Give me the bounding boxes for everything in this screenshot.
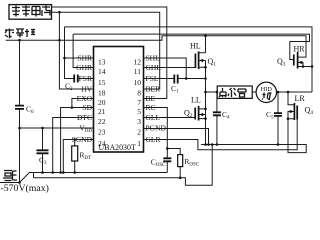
svg-text:2: 2 xyxy=(137,128,141,137)
wire: GLR to Q4 gate xyxy=(144,120,298,150)
wire: VDD rail to -570V vertical xyxy=(20,127,94,129)
wire: SHR top rail to right bridge node xyxy=(65,27,313,92)
svg-text:HV: HV xyxy=(81,85,92,94)
pin numbers left xyxy=(98,58,106,149)
capacitor C1 xyxy=(174,75,177,84)
wire: SHR pin stub xyxy=(65,57,94,59)
svg-text:24: 24 xyxy=(98,139,106,148)
wire: GHR pin stub xyxy=(73,34,93,67)
svg-text:3: 3 xyxy=(137,117,141,126)
high voltage label 高压 xyxy=(3,171,17,181)
capacitor C5 xyxy=(277,92,279,145)
quiet rail junction dots xyxy=(51,171,54,174)
svg-text:7: 7 xyxy=(137,98,141,107)
svg-text:BE: BE xyxy=(146,94,156,103)
node: ground rail / HV vertical xyxy=(58,39,61,42)
svg-text:GHR: GHR xyxy=(76,63,92,72)
svg-text:22: 22 xyxy=(98,117,106,126)
svg-text:11: 11 xyxy=(134,67,141,76)
control circuit box 控制电路 xyxy=(9,5,52,20)
svg-text:20: 20 xyxy=(98,98,106,107)
wire: system ground rail xyxy=(6,36,306,57)
node: control wire2 to ground tap xyxy=(58,11,61,14)
wire: C1 to bridge left node xyxy=(178,78,206,80)
wire: DTC down to quiet rail xyxy=(53,118,94,173)
capacitor C4 xyxy=(216,92,218,145)
svg-text:10: 10 xyxy=(134,78,142,87)
wire: GHL to Q1 gate xyxy=(144,67,196,69)
pin numbers right xyxy=(134,58,142,149)
wire: C2 right plate to FSR pin xyxy=(78,78,94,80)
capacitor C3 branch xyxy=(42,128,44,173)
node: igniter tap on bridge vertical xyxy=(204,91,207,94)
wire: igniter to lamp xyxy=(252,91,256,93)
svg-text:21: 21 xyxy=(98,107,106,116)
wire: SHR left vertical to C2 xyxy=(65,27,75,79)
system ground label 系统地 xyxy=(5,29,35,38)
capacitor C6 on -570V branch xyxy=(19,40,21,182)
svg-text:18: 18 xyxy=(98,89,106,98)
wire: control output 2 to BER pin xyxy=(52,12,160,89)
svg-text:SHR: SHR xyxy=(77,54,92,63)
wire: control output 1 to BE pin xyxy=(52,7,167,99)
svg-text:LL: LL xyxy=(191,96,201,105)
wire: EXO tied to SD xyxy=(72,99,94,108)
wire: SD down to quiet rail xyxy=(61,108,94,173)
wire: bridge bottom rail xyxy=(201,119,306,153)
node: ground rail / C6 branch xyxy=(18,39,21,42)
svg-text:8: 8 xyxy=(137,89,141,98)
wire: SGND down to quiet rail xyxy=(63,140,93,173)
svg-text:BER: BER xyxy=(146,85,161,94)
resistor RDT xyxy=(74,140,76,173)
capacitor Cosc xyxy=(163,158,171,161)
wire: PGND down to bridge bottom xyxy=(144,129,209,145)
pin labels left xyxy=(72,54,93,145)
svg-text:15: 15 xyxy=(98,78,106,87)
wire: RC to oscillator network xyxy=(144,108,168,159)
resistor Rosc xyxy=(178,155,183,167)
wire: lamp to right bridge node xyxy=(277,91,313,93)
wire: SHL to left bridge node xyxy=(144,58,187,79)
svg-text:5: 5 xyxy=(137,107,141,116)
pin labels right xyxy=(146,54,167,145)
node: SHL joins C1 net xyxy=(185,77,188,80)
svg-text:12: 12 xyxy=(134,58,142,67)
wire: GLL to Q2 gate xyxy=(144,117,196,119)
svg-text:HR: HR xyxy=(294,45,306,54)
wire: bridge left to igniter xyxy=(206,91,218,93)
IC U1 UBA2030T xyxy=(94,47,144,153)
svg-text:HL: HL xyxy=(190,42,201,51)
wire: GHR top rail to Q3 gate xyxy=(73,34,309,59)
igniter box 点火器 xyxy=(217,86,252,98)
svg-text:-570V(max): -570V(max) xyxy=(1,183,49,194)
bridge left vertical xyxy=(205,61,207,145)
svg-text:HID: HID xyxy=(261,86,273,93)
svg-text:FSR: FSR xyxy=(79,74,92,83)
svg-text:14: 14 xyxy=(98,67,106,76)
node: RC net split xyxy=(166,147,169,150)
node: SHR stub on vertical xyxy=(63,57,66,60)
svg-text:LR: LR xyxy=(295,94,306,103)
svg-text:23: 23 xyxy=(98,128,106,137)
capacitor C2 xyxy=(74,75,78,83)
node: C1 net on bridge vertical xyxy=(204,77,207,80)
wire: lower -570V feed to bridge bottom xyxy=(34,145,213,186)
svg-text:13: 13 xyxy=(98,58,106,67)
svg-text:1: 1 xyxy=(137,139,141,148)
-570V bottom rail and quiet ground rail xyxy=(0,173,167,183)
HID lamp xyxy=(256,82,276,102)
wire: FSL to C1 xyxy=(144,78,175,80)
wire: HV net vertical (control tap down to HV pin) xyxy=(59,12,93,89)
